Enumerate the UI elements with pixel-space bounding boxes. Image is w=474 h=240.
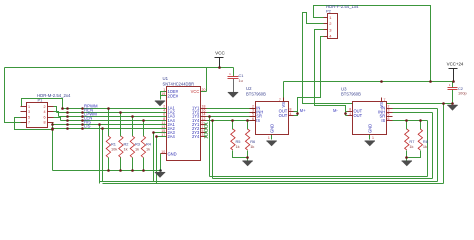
junction row2 b [81, 111, 84, 114]
ground R5R6 [242, 161, 252, 166]
svg-text:11: 11 [162, 121, 166, 125]
wire U3 IS rail [393, 120, 428, 122]
svg-text:7: 7 [279, 98, 281, 102]
wire U3 IN right [393, 108, 438, 110]
wire +24 rail [284, 81, 454, 83]
wire P1 pin6 jog [54, 118, 61, 121]
wire U3 OUT join [345, 112, 347, 116]
junction R4 bottom [142, 169, 145, 172]
junction row5 left [51, 123, 54, 126]
svg-text:3: 3 [28, 110, 30, 114]
wire U3 OUT stub a [346, 111, 348, 113]
wire C1 top [233, 68, 235, 77]
connector P2 HDR-F-2.54 1x4 [328, 14, 338, 39]
pin 6 U3 IS [387, 120, 393, 122]
ground U2 [266, 141, 276, 146]
svg-text:R7: R7 [409, 139, 414, 144]
wire ground rail [53, 170, 161, 172]
junction row3 b [81, 115, 84, 118]
svg-text:1: 1 [28, 105, 30, 109]
svg-text:R1: R1 [111, 142, 116, 147]
svg-text:6: 6 [388, 117, 390, 121]
svg-text:7: 7 [28, 121, 30, 125]
svg-text:5: 5 [388, 113, 390, 117]
svg-text:19: 19 [161, 92, 165, 96]
pin 4 P1 [48, 111, 54, 113]
svg-text:R3: R3 [135, 142, 140, 147]
wire row6 [53, 128, 167, 130]
resistor R2 [119, 136, 123, 158]
svg-text:HDR-M-2.54_2x4: HDR-M-2.54_2x4 [37, 93, 71, 98]
svg-text:1: 1 [229, 72, 231, 76]
wire R5 R6 bottoms [233, 151, 248, 158]
wire U1 OE to gnd [160, 96, 162, 100]
pin 6 U2 IS [250, 120, 256, 122]
svg-text:1k: 1k [423, 144, 427, 149]
wire C2 bottom [452, 90, 454, 104]
pin 2 U3 IN [387, 108, 393, 110]
junction RIS drop [98, 123, 101, 126]
svg-text:2OE#: 2OE# [168, 93, 179, 98]
svg-text:GND: GND [368, 124, 373, 133]
svg-text:VCC+24: VCC+24 [447, 62, 464, 67]
capacitor C2 [448, 87, 458, 89]
wire bus3 [100, 181, 438, 183]
svg-text:U2: U2 [246, 86, 252, 91]
wire C2 top [452, 82, 454, 88]
wire U1 GND [160, 154, 162, 171]
wire M+ to P2 pin4 [298, 37, 324, 114]
wire 2A3 tap [154, 133, 167, 182]
wire 1Y2 to U2 [207, 112, 256, 114]
pin 7 P1 [21, 122, 27, 124]
svg-text:100p: 100p [458, 90, 467, 95]
wire R7 R8 bottoms [407, 151, 421, 158]
wire U1 OE tie [161, 92, 167, 96]
junction row1 a [66, 107, 69, 110]
svg-text:HDR-F-2.54_1x4: HDR-F-2.54_1x4 [326, 4, 359, 9]
wire 2A4 tap [157, 137, 167, 184]
junction R3 bottom [131, 169, 134, 172]
junction VCC rail [218, 66, 221, 69]
ground C2 [447, 105, 457, 110]
power VCC stem [219, 58, 221, 68]
resistor R8 [418, 129, 422, 150]
wire VCC rail top [5, 67, 234, 69]
svg-text:IS: IS [381, 118, 385, 123]
connector P1 HDR-M-2.54 2x4 [27, 103, 48, 128]
pin 4 P2 [324, 36, 328, 38]
IC U2 BTS7960B body [256, 102, 289, 135]
svg-text:1: 1 [268, 136, 270, 140]
svg-text:P1: P1 [38, 98, 44, 103]
junction R7 bottom [405, 156, 408, 159]
ground C1 [228, 93, 238, 98]
svg-text:1: 1 [449, 83, 451, 87]
svg-text:3: 3 [388, 109, 390, 113]
svg-text:15: 15 [161, 129, 165, 133]
svg-text:1k: 1k [124, 147, 128, 152]
svg-text:2: 2 [388, 105, 390, 109]
pin 3 P2 [324, 29, 328, 31]
wire P1 pin5 loop under [15, 118, 53, 130]
junction 2A3 tap [152, 131, 155, 134]
junction row2 a [66, 111, 69, 114]
wire 1Y3 to U2 [207, 116, 256, 118]
pin 1 P2 [324, 17, 328, 19]
svg-text:8: 8 [290, 108, 292, 112]
op-amp U1 SN74HC244DBR body [167, 87, 201, 161]
wire C1 bottom [233, 79, 235, 93]
junction R1 bottom [107, 169, 110, 172]
ground U3 [365, 141, 375, 146]
wire U3 INH right [393, 112, 433, 114]
junction row3 drop [208, 115, 211, 118]
junction R2 top [119, 111, 122, 114]
svg-text:1k: 1k [135, 147, 139, 152]
wire R4 bottom [143, 158, 145, 171]
junction R3 top [131, 115, 134, 118]
svg-text:7: 7 [384, 98, 386, 102]
resistor R7 [405, 129, 409, 150]
svg-text:R5: R5 [236, 139, 241, 144]
svg-text:LIS: LIS [84, 124, 91, 129]
junction M+ [296, 112, 299, 115]
junction row6 b [81, 127, 84, 130]
svg-text:17: 17 [161, 133, 165, 137]
svg-text:8: 8 [349, 108, 351, 112]
svg-text:P2: P2 [326, 9, 332, 14]
wire R3 top [132, 117, 134, 137]
ground R7R8 [402, 161, 412, 166]
wire LIS drop [102, 129, 104, 182]
wire RIS drop [99, 125, 101, 184]
pin 6 P1 [48, 117, 54, 119]
pin 3 P1 [21, 111, 27, 113]
junction P2 +24 drop [429, 80, 432, 83]
junction R5 top [231, 119, 234, 122]
svg-text:1: 1 [372, 136, 374, 140]
svg-text:R8: R8 [423, 139, 428, 144]
junction row4 b [81, 119, 84, 122]
junction R2 bottom [119, 169, 122, 172]
wire bus1 [210, 176, 428, 178]
junction row4 drop [211, 119, 214, 122]
junction row6 a [66, 127, 69, 130]
wire R2 bottom [120, 158, 122, 171]
wire R7R8 gnd stem [406, 158, 408, 161]
junction row6 left [51, 127, 54, 130]
junction LIS drop [101, 127, 104, 130]
resistor R6 [245, 129, 249, 150]
svg-text:M-: M- [333, 108, 338, 113]
capacitor C1 [228, 76, 239, 78]
wire U3 IN drop [437, 109, 439, 182]
svg-text:OUT: OUT [354, 113, 363, 118]
wire P1 pin8 gnd drop [53, 123, 54, 171]
ground U1 OE [155, 101, 165, 106]
svg-text:6: 6 [163, 113, 165, 117]
junction row5 b [81, 123, 84, 126]
svg-text:R2: R2 [124, 142, 129, 147]
wire R4 top [143, 121, 145, 137]
wire P1 pin1 over-top [22, 99, 63, 109]
svg-text:1: 1 [163, 88, 165, 92]
svg-text:2: 2 [163, 105, 165, 109]
svg-text:20: 20 [202, 88, 206, 92]
junction pin1 wire [61, 107, 64, 110]
wire U2 VS [283, 82, 285, 102]
svg-text:5: 5 [252, 113, 254, 117]
wire R5R6 gnd stem [247, 158, 249, 161]
pin 2 U2 IN [250, 108, 256, 110]
wire bus4 [103, 183, 444, 185]
wire U3 IS drop [427, 121, 429, 177]
svg-text:R6: R6 [250, 139, 255, 144]
svg-text:C1: C1 [239, 73, 244, 78]
wire R2 top [120, 113, 122, 137]
wire U1 VCC stub [201, 91, 207, 93]
pin 2 P2 [324, 23, 328, 25]
wire U3 INH drop [432, 113, 434, 179]
junction U3 VS rail [380, 80, 383, 83]
junction 2A4 tap [155, 135, 158, 138]
junction row1 b [81, 107, 84, 110]
svg-text:4: 4 [163, 109, 165, 113]
pin 8 P1 [48, 122, 54, 124]
wire P1 pin4 jog [54, 112, 59, 117]
junction R1 top [107, 107, 110, 110]
wire R5 top [232, 121, 234, 130]
svg-text:6: 6 [43, 115, 45, 119]
wire P2 pin1 +24 [314, 6, 431, 82]
svg-text:2: 2 [252, 105, 254, 109]
svg-text:VCC: VCC [191, 89, 200, 94]
svg-text:4: 4 [43, 110, 45, 114]
pin 5 U3 SR [387, 116, 393, 118]
svg-text:VS: VS [281, 102, 286, 108]
svg-text:13: 13 [161, 125, 165, 129]
wire row4 [61, 120, 167, 122]
wire M- to P2 pin3 [315, 30, 346, 114]
svg-text:1u: 1u [239, 78, 243, 83]
svg-text:2: 2 [43, 105, 45, 109]
resistor R4 [141, 136, 145, 158]
svg-text:6: 6 [252, 117, 254, 121]
svg-text:1k: 1k [236, 144, 240, 149]
wire U2 OUT join [294, 112, 298, 116]
svg-text:8: 8 [163, 117, 165, 121]
wire P1 pin2 jog [54, 107, 57, 113]
junction R7 top [405, 119, 408, 122]
svg-text:R4: R4 [146, 142, 152, 147]
junction gnd line branch [442, 102, 445, 105]
ground rail symbol [155, 173, 165, 178]
svg-text:BTS7960B: BTS7960B [246, 91, 266, 96]
svg-text:OUT: OUT [279, 113, 288, 118]
junction R8 top [419, 119, 422, 122]
pin 1 P1 [21, 106, 27, 108]
junction R6 bottom [246, 156, 249, 159]
resistor R5 [231, 129, 235, 150]
svg-text:4: 4 [349, 112, 351, 116]
svg-text:SN74HC244DBR: SN74HC244DBR [163, 81, 195, 86]
wire R6 top [247, 121, 249, 130]
svg-text:U3: U3 [341, 87, 347, 92]
junction U1 gnd [159, 169, 162, 172]
pin 10 stub [161, 153, 167, 155]
wire row1 [63, 108, 167, 110]
svg-text:IS: IS [256, 118, 260, 123]
junction row3 a [66, 115, 69, 118]
wire R1 bottom [108, 158, 110, 171]
wire U3 GND stub [369, 135, 371, 140]
wire gnd drop to bus4 [443, 104, 445, 184]
wire bus2 [213, 178, 433, 180]
wire row3 [59, 116, 167, 118]
svg-text:U1: U1 [163, 76, 169, 81]
svg-text:2Y4: 2Y4 [192, 134, 200, 139]
svg-text:10k: 10k [111, 147, 117, 152]
power VCC+24 stem [453, 69, 455, 82]
wire row5 [53, 124, 167, 126]
resistor R1 [106, 136, 110, 158]
svg-text:VS: VS [379, 102, 384, 108]
pin 2 P1 [48, 106, 54, 108]
IC U3 BTS7960B body [353, 102, 387, 135]
wire 1Y1 to U2 [207, 108, 256, 110]
svg-text:GND: GND [269, 124, 274, 133]
svg-text:5: 5 [28, 115, 30, 119]
svg-text:2A4: 2A4 [168, 134, 176, 139]
pin 3 U3 INH [387, 112, 393, 114]
pin 5 U2 SR [250, 116, 256, 118]
svg-text:3: 3 [252, 109, 254, 113]
svg-text:1k: 1k [146, 147, 150, 152]
junction M- [344, 112, 347, 115]
wire 1Y4 to U2 [207, 120, 256, 122]
svg-text:GND: GND [168, 151, 177, 156]
svg-text:M+: M+ [300, 108, 306, 113]
wire row3 drop [209, 117, 211, 177]
svg-text:1k: 1k [250, 144, 254, 149]
wire row2 [57, 112, 167, 114]
svg-text:VCC: VCC [215, 50, 225, 55]
svg-text:BTS7960B: BTS7960B [341, 91, 361, 96]
junction VCC+24 rail [452, 80, 455, 83]
wire R1 top [108, 109, 110, 137]
wire row4 drop [212, 121, 214, 179]
svg-text:8: 8 [43, 121, 45, 125]
wire U2 GND stub [271, 135, 273, 140]
no-connect flags 2Y1-2Y4 [204, 123, 207, 126]
wire R7 top [406, 121, 408, 130]
wire R8 top [420, 121, 422, 130]
svg-text:1k: 1k [409, 144, 413, 149]
junction R4 top [142, 119, 145, 122]
svg-text:4: 4 [290, 112, 292, 116]
wire R3 bottom [132, 158, 134, 171]
junction R6 top [246, 119, 249, 122]
junction C2 gnd [451, 102, 454, 105]
resistor R3 [130, 136, 134, 158]
junction pin5 loop [51, 128, 54, 131]
wire P2 pin2 gnd net [303, 13, 453, 104]
wire VCC to P1 pin7 [5, 68, 27, 123]
junction row5 a [66, 123, 69, 126]
wire U3 OUT stub b [346, 115, 348, 117]
pin 3 U2 INH [250, 112, 256, 114]
wire U1 VCC [206, 68, 208, 92]
pin 5 P1 [21, 117, 27, 119]
junction row4 a [66, 119, 69, 122]
